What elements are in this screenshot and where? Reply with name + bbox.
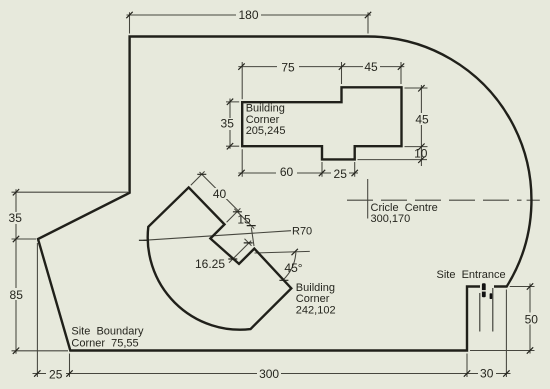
svg-text:Corner 75,55: Corner 75,55 <box>71 337 138 349</box>
svg-text:60: 60 <box>280 165 294 179</box>
svg-text:45°: 45° <box>284 261 302 275</box>
svg-text:30: 30 <box>480 367 494 381</box>
svg-text:R70: R70 <box>292 225 312 237</box>
svg-text:16.25: 16.25 <box>195 257 225 271</box>
svg-text:45: 45 <box>415 112 429 126</box>
svg-text:Site Entrance: Site Entrance <box>437 269 506 281</box>
svg-text:35: 35 <box>221 117 235 131</box>
svg-text:242,102: 242,102 <box>296 304 336 316</box>
svg-text:25: 25 <box>334 167 348 181</box>
svg-text:45: 45 <box>364 60 378 74</box>
svg-text:205,245: 205,245 <box>246 125 286 137</box>
svg-text:300: 300 <box>259 367 279 381</box>
svg-text:85: 85 <box>10 288 24 302</box>
svg-text:180: 180 <box>238 8 258 22</box>
svg-text:Site Boundary: Site Boundary <box>71 326 144 338</box>
svg-text:Building: Building <box>246 102 285 114</box>
svg-text:50: 50 <box>525 312 539 326</box>
svg-text:Building: Building <box>296 282 335 294</box>
svg-text:Corner: Corner <box>246 114 280 126</box>
svg-text:25: 25 <box>49 367 63 381</box>
svg-text:Corner: Corner <box>296 293 330 305</box>
svg-text:75: 75 <box>281 60 295 74</box>
svg-text:40: 40 <box>213 187 227 201</box>
svg-text:10: 10 <box>414 146 428 160</box>
svg-text:300,170: 300,170 <box>371 213 411 225</box>
svg-text:15: 15 <box>237 212 251 226</box>
svg-text:35: 35 <box>9 211 23 225</box>
